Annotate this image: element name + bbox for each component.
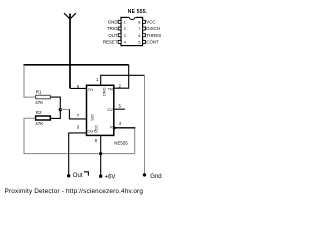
svg-text:R: R	[110, 125, 113, 130]
wire VCC pin to +6V	[100, 135, 102, 176]
svg-text:R2: R2	[36, 110, 42, 115]
svg-text:OUT: OUT	[108, 33, 118, 38]
svg-text:DIS: DIS	[90, 114, 95, 121]
svg-text:DISCH: DISCH	[146, 26, 160, 31]
svg-text:THRES: THRES	[146, 33, 161, 38]
wire R1 to node	[50, 97, 60, 118]
wire right rail to Gnd	[144, 75, 146, 174]
svg-text:CV: CV	[107, 107, 113, 112]
reset pin input marker	[114, 126, 117, 129]
pin pads 1-4 left	[118, 20, 121, 23]
svg-text:47K: 47K	[35, 100, 43, 105]
svg-text:TR: TR	[108, 86, 113, 91]
svg-text:GND: GND	[102, 88, 107, 97]
terminal node Out	[67, 174, 70, 177]
IC U1 NE555 timer box	[87, 85, 114, 135]
svg-text:CONT: CONT	[146, 40, 159, 45]
wire top rail antenna to TRIG	[23, 64, 128, 66]
wire THRES from antenna	[70, 87, 87, 89]
pin pads 8-5 right	[143, 20, 146, 23]
svg-text:TH: TH	[88, 87, 93, 92]
wire TRIG drop	[114, 65, 129, 88]
resistor R1	[36, 95, 51, 99]
terminal node +6V	[99, 175, 102, 178]
svg-text:Gnd: Gnd	[150, 174, 161, 180]
svg-text:GND: GND	[108, 19, 118, 24]
DIP-8 pinout diagram of NE555	[103, 9, 161, 46]
DIP package body with notch	[121, 17, 143, 45]
svg-text:R1: R1	[36, 90, 42, 95]
wire R2 left to +6V rail	[24, 118, 135, 153]
wire jog node to DIS pin 7	[60, 108, 69, 110]
wire RESET pin 4 to +6V rail	[134, 128, 136, 154]
svg-text:NE 555.: NE 555.	[128, 9, 148, 15]
antenna AE1	[64, 13, 76, 88]
svg-text:VCC: VCC	[93, 125, 98, 133]
pin 5 stub CV	[114, 108, 125, 110]
svg-text:47K: 47K	[35, 121, 43, 126]
resistor R2	[36, 116, 51, 120]
terminal node Gnd (ground)	[143, 173, 146, 176]
svg-text:VCC: VCC	[146, 19, 155, 24]
svg-text:RESET: RESET	[103, 40, 118, 45]
svg-text:Out: Out	[73, 173, 83, 179]
wire OUT pin to Out terminal	[69, 133, 87, 176]
node junction R1/R2/DIS	[59, 108, 62, 111]
svg-text:Proximity Detector - http://: Proximity Detector - http://sciencezero.…	[5, 188, 144, 195]
symbol after Out label	[84, 172, 88, 176]
junction VCC/rail	[99, 152, 102, 155]
svg-text:+6V: +6V	[105, 174, 116, 180]
svg-text:TRIG: TRIG	[107, 26, 118, 31]
svg-text:NE555: NE555	[114, 140, 128, 145]
wire left rail upper	[24, 65, 36, 97]
wire GND pin to right rail	[101, 75, 145, 85]
